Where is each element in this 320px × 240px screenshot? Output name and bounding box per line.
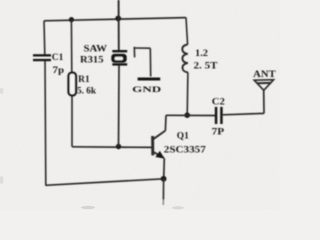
node junction SAW-base <box>116 144 121 149</box>
wire emitter down to edge <box>162 179 164 200</box>
ground wire vertical <box>149 48 151 76</box>
saw resonator top plate <box>112 50 127 52</box>
wire R1 branch upper <box>70 20 72 73</box>
wire coil branch upper <box>186 18 188 45</box>
transistor Q1 collector arm <box>153 131 165 140</box>
svg-text:1.2: 1.2 <box>195 48 209 58</box>
svg-text:SAW: SAW <box>84 44 108 54</box>
wire left branch upper (top rail to C1) <box>43 21 46 55</box>
svg-text:GND: GND <box>132 84 161 94</box>
node junction coil-collector rail <box>184 112 190 118</box>
svg-text:R315: R315 <box>80 55 104 65</box>
svg-text:5. 6k: 5. 6k <box>77 86 96 96</box>
svg-text:7p: 7p <box>53 65 65 75</box>
node junction emitter-bottom rail <box>161 176 167 182</box>
inductor L 2.5T coil <box>182 45 188 73</box>
svg-text:R1: R1 <box>78 74 90 84</box>
svg-text:2. 5T: 2. 5T <box>194 61 218 71</box>
capacitor C2 left plate <box>215 107 218 124</box>
svg-text:Q1: Q1 <box>177 130 190 140</box>
node junction top R1 <box>69 17 74 22</box>
scan speck left edge <box>0 88 4 94</box>
svg-text:ANT: ANT <box>253 69 276 79</box>
saw resonator bottom plate <box>112 63 127 65</box>
transistor Q1 emitter arrow <box>155 151 164 159</box>
wire Q1 collector vertical <box>164 115 167 130</box>
capacitor C2 right plate <box>220 107 223 124</box>
wire collector rail (Q1 to C2) <box>166 114 215 116</box>
wire from top edge to SAW junction <box>118 0 120 51</box>
wire SAW to base rail <box>118 66 121 147</box>
wire bottom rail <box>45 179 163 186</box>
wire left branch lower (C1 to bottom rail) <box>44 61 47 185</box>
wire coil branch lower <box>186 73 189 116</box>
wire antenna vertical <box>263 90 265 113</box>
scan speck left lower <box>0 176 4 184</box>
svg-text:C2: C2 <box>212 97 226 107</box>
antenna ANT symbol <box>254 80 273 91</box>
svg-text:7P: 7P <box>212 127 225 137</box>
resistor R1 <box>69 73 77 96</box>
ground stub <box>133 47 135 58</box>
wire Q1 emitter vertical <box>163 158 166 179</box>
svg-text:2SC3357: 2SC3357 <box>164 144 207 154</box>
wire C2 to antenna <box>223 113 264 114</box>
svg-text:C1: C1 <box>52 52 64 62</box>
scan smudge bottom mid <box>172 206 184 209</box>
ground wire horizontal <box>134 47 150 49</box>
ground bar <box>138 78 161 81</box>
transistor Q1 emitter arm <box>154 152 164 158</box>
wire base rail (R1 corner to Q1 base) <box>72 146 153 149</box>
scan smudge bottom left <box>81 206 95 209</box>
wire top rail <box>44 18 186 21</box>
transistor Q1 base bar <box>151 136 154 155</box>
node junction top SAW <box>115 16 121 22</box>
saw resonator body <box>111 54 126 63</box>
capacitor C1 <box>33 54 51 56</box>
wire R1 branch lower <box>71 95 73 146</box>
